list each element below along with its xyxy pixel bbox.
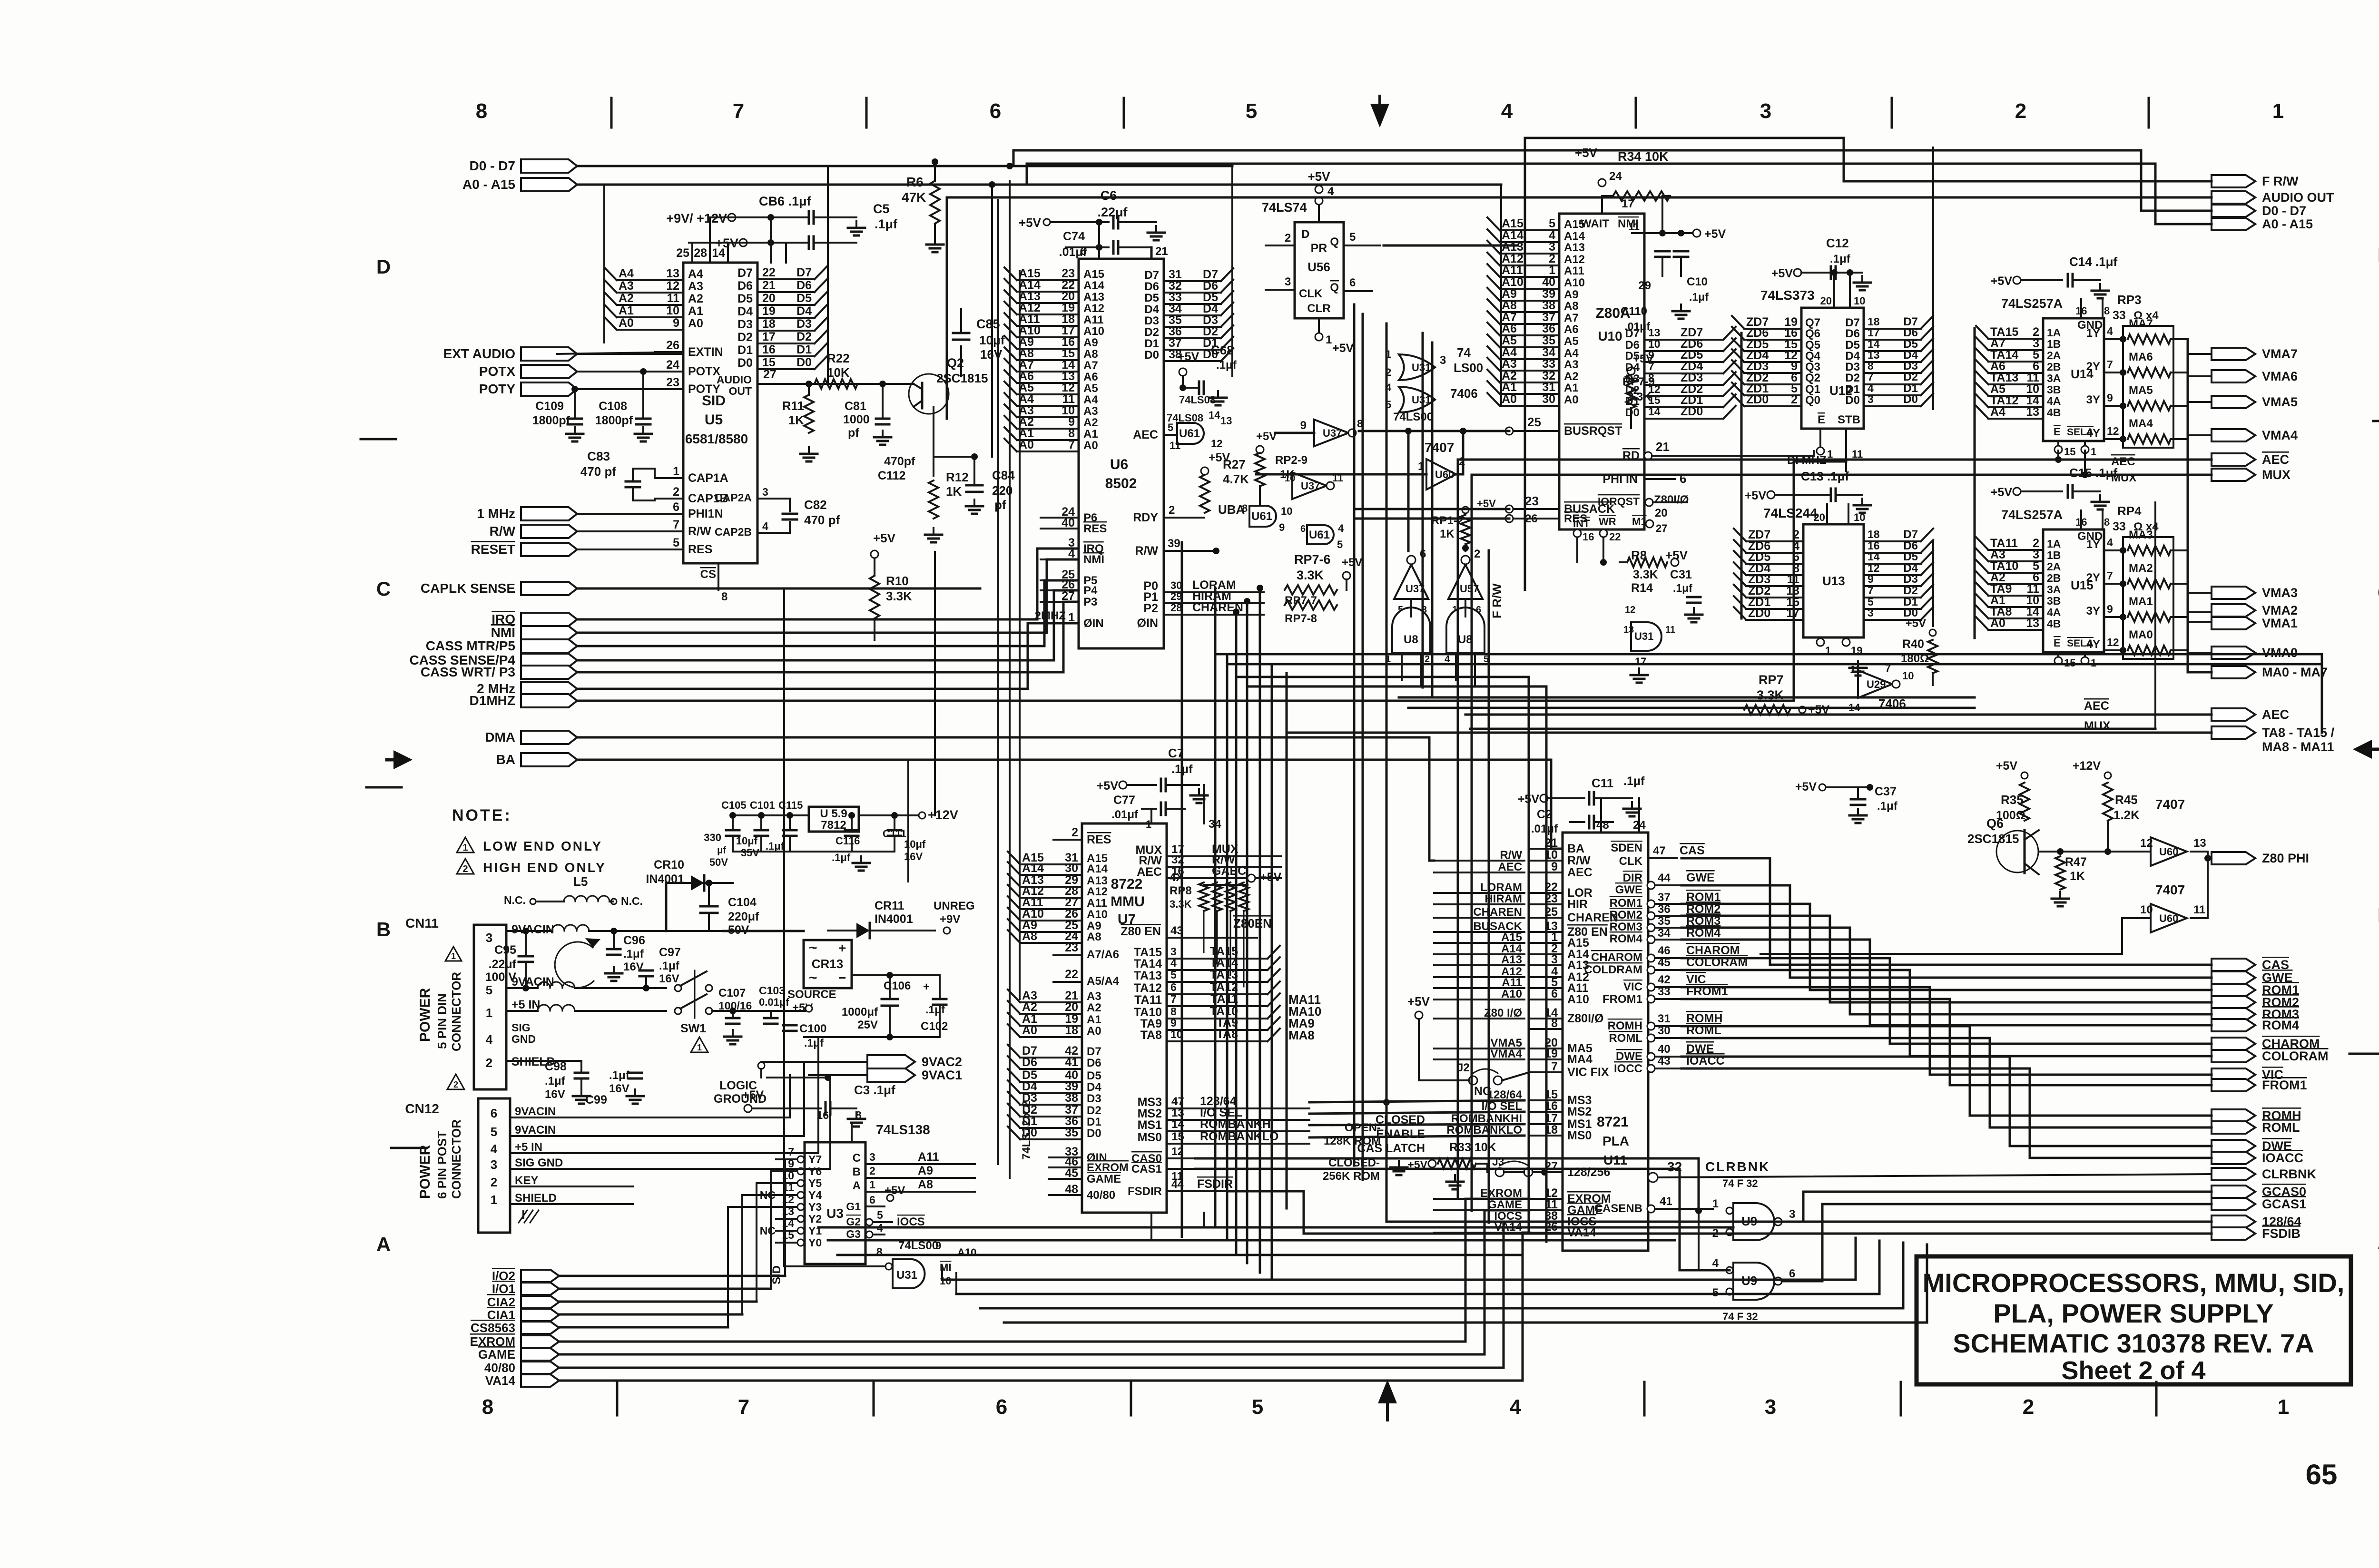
svg-text:FROM1: FROM1	[2262, 1078, 2307, 1092]
svg-text:GND: GND	[511, 1033, 536, 1045]
svg-text:+5V: +5V	[1996, 759, 2018, 773]
svg-text:A0 - A15: A0 - A15	[2262, 217, 2313, 231]
svg-text:D5: D5	[1625, 350, 1640, 363]
svg-text:C10: C10	[1687, 275, 1708, 288]
svg-text:U6: U6	[1110, 457, 1128, 472]
svg-text:10μf: 10μf	[904, 838, 926, 850]
svg-text:3: 3	[1868, 607, 1874, 619]
svg-text:CAP2A: CAP2A	[715, 491, 752, 504]
svg-text:2SC1815: 2SC1815	[936, 371, 988, 385]
svg-text:OUT: OUT	[728, 385, 752, 397]
svg-text:TA8: TA8	[1140, 1029, 1162, 1042]
svg-text:SIG GND: SIG GND	[515, 1156, 563, 1169]
svg-text:A12: A12	[1087, 885, 1108, 898]
svg-text:A4: A4	[688, 267, 703, 281]
svg-text:12: 12	[2140, 837, 2153, 850]
svg-text:C96: C96	[623, 934, 645, 947]
svg-text:POTY: POTY	[688, 382, 720, 396]
svg-text:R/W: R/W	[688, 525, 711, 538]
svg-text:3: 3	[869, 1151, 875, 1163]
svg-text:ROML: ROML	[1609, 1032, 1642, 1045]
svg-text:A5/A4: A5/A4	[1087, 975, 1120, 988]
svg-text:3: 3	[1285, 275, 1291, 288]
svg-text:7: 7	[673, 518, 679, 531]
svg-text:D3: D3	[1903, 573, 1918, 586]
svg-text:Q6: Q6	[1805, 327, 1820, 340]
svg-text:A14: A14	[1083, 279, 1105, 292]
svg-text:B: B	[376, 918, 391, 941]
svg-text:2: 2	[2015, 99, 2026, 123]
svg-text:A1: A1	[1083, 428, 1098, 441]
svg-text:4: 4	[1338, 522, 1344, 534]
svg-text:A6: A6	[1083, 371, 1098, 383]
svg-text:7: 7	[733, 99, 744, 123]
svg-text:Sheet 2 of 4: Sheet 2 of 4	[2061, 1356, 2205, 1385]
svg-text:.22μf: .22μf	[489, 958, 517, 971]
svg-text:U37: U37	[1323, 427, 1342, 439]
svg-text:1: 1	[491, 1193, 497, 1207]
svg-text:74LS74: 74LS74	[1262, 200, 1307, 215]
svg-text:A2: A2	[1564, 370, 1579, 383]
svg-text:A12: A12	[1083, 302, 1104, 315]
svg-text:6581/8580: 6581/8580	[685, 431, 748, 446]
svg-text:SDEN: SDEN	[1611, 842, 1642, 854]
svg-text:U31: U31	[1634, 630, 1653, 642]
svg-text:U56: U56	[1307, 260, 1330, 274]
svg-text:13: 13	[2026, 617, 2039, 630]
svg-text:38: 38	[1542, 299, 1555, 312]
svg-text:U31: U31	[1412, 394, 1431, 406]
svg-text:C110: C110	[1621, 305, 1647, 318]
svg-text:74LS244: 74LS244	[1763, 506, 1818, 520]
svg-text:10: 10	[666, 304, 679, 317]
svg-text:ROMBANKLO: ROMBANKLO	[1200, 1130, 1278, 1143]
svg-text:2: 2	[673, 485, 679, 499]
svg-text:+5 IN: +5 IN	[511, 998, 540, 1011]
svg-text:12: 12	[2107, 425, 2119, 437]
svg-text:8: 8	[1170, 1005, 1177, 1018]
svg-text:5: 5	[1252, 1395, 1263, 1419]
svg-text:CONNECTOR: CONNECTOR	[449, 1119, 463, 1199]
svg-text:74LS08: 74LS08	[1167, 412, 1203, 424]
svg-text:3: 3	[1868, 393, 1874, 405]
svg-text:3Y: 3Y	[2086, 393, 2100, 406]
svg-text:CIA1: CIA1	[487, 1308, 515, 1322]
svg-text:MS2: MS2	[1567, 1105, 1592, 1118]
svg-text:A8: A8	[1087, 931, 1101, 943]
svg-text:D4: D4	[1144, 303, 1159, 316]
svg-text:AEC: AEC	[1567, 866, 1593, 879]
svg-text:A2: A2	[1087, 1001, 1101, 1014]
svg-text:37: 37	[1658, 891, 1671, 904]
svg-text:.1μf: .1μf	[875, 217, 898, 231]
svg-text:R40: R40	[1902, 637, 1924, 651]
svg-text:D2: D2	[1903, 584, 1918, 597]
svg-text:A13: A13	[1502, 240, 1524, 254]
svg-text:35V: 35V	[741, 847, 759, 859]
svg-text:MA5: MA5	[2129, 384, 2153, 397]
svg-text:470pf: 470pf	[884, 455, 915, 468]
svg-text:POTY: POTY	[479, 382, 516, 396]
svg-text:C115: C115	[778, 799, 803, 811]
svg-text:U31: U31	[896, 1269, 917, 1282]
svg-text:+5V: +5V	[1178, 350, 1199, 363]
svg-text:VMA4: VMA4	[2262, 428, 2298, 442]
svg-text:MA6: MA6	[2129, 351, 2153, 363]
svg-text:8: 8	[721, 590, 727, 603]
svg-text:U57: U57	[1460, 583, 1479, 595]
svg-text:7: 7	[788, 1146, 794, 1158]
svg-text:ZD0: ZD0	[1748, 607, 1770, 620]
svg-text:Z80 EN: Z80 EN	[1121, 925, 1161, 938]
svg-text:3: 3	[1760, 99, 1771, 123]
svg-text:LOGIC: LOGIC	[719, 1079, 757, 1092]
svg-text:29: 29	[1170, 590, 1182, 602]
svg-text:D6: D6	[1845, 327, 1860, 340]
svg-text:7: 7	[1170, 993, 1177, 1005]
svg-text:9VACIN: 9VACIN	[515, 1124, 556, 1137]
svg-text:9VAC1: 9VAC1	[922, 1068, 962, 1082]
svg-text:256K ROM: 256K ROM	[1323, 1170, 1380, 1183]
svg-text:15: 15	[1648, 394, 1661, 406]
svg-text:45: 45	[1065, 1166, 1078, 1180]
svg-text:C74: C74	[1063, 230, 1085, 243]
svg-text:100Ω: 100Ω	[1996, 809, 2025, 822]
svg-text:CIA2: CIA2	[487, 1295, 515, 1309]
svg-text:A11: A11	[1502, 976, 1522, 989]
svg-text:36: 36	[1542, 322, 1555, 335]
svg-text:9VACIN: 9VACIN	[515, 1105, 556, 1118]
svg-text:A0: A0	[619, 316, 634, 330]
svg-text:CLRBNK: CLRBNK	[2262, 1167, 2316, 1181]
svg-text:46: 46	[1658, 944, 1671, 957]
svg-text:22: 22	[1609, 531, 1621, 543]
svg-text:TA12: TA12	[1134, 981, 1162, 995]
svg-text:7: 7	[1868, 371, 1874, 383]
svg-text:6: 6	[996, 1395, 1007, 1419]
svg-text:AEC: AEC	[2084, 699, 2109, 713]
svg-text:Y5: Y5	[808, 1177, 822, 1189]
svg-text:D3: D3	[1087, 1092, 1101, 1105]
svg-text:100 V: 100 V	[485, 970, 517, 984]
svg-text:A3: A3	[688, 280, 703, 293]
svg-text:A15: A15	[1083, 268, 1104, 281]
svg-text:74LS257A: 74LS257A	[2001, 508, 2063, 522]
svg-text:18: 18	[1065, 1024, 1078, 1037]
svg-text:2: 2	[486, 1056, 492, 1070]
svg-text:A0: A0	[688, 317, 703, 330]
svg-text:74LS32 x 2: 74LS32 x 2	[1020, 1101, 1033, 1160]
svg-text:C37: C37	[1875, 785, 1897, 798]
svg-text:10μf: 10μf	[736, 835, 758, 847]
svg-text:NC: NC	[760, 1225, 776, 1237]
svg-text:23: 23	[666, 376, 679, 389]
svg-text:U3: U3	[826, 1206, 844, 1221]
svg-text:7: 7	[1551, 1060, 1558, 1073]
svg-text:VMA2: VMA2	[2262, 603, 2298, 617]
svg-text:R12: R12	[946, 470, 969, 484]
svg-text:1K: 1K	[2070, 870, 2085, 883]
svg-text:33: 33	[1542, 357, 1555, 371]
svg-text:A2: A2	[1022, 1000, 1037, 1014]
svg-text:+5V: +5V	[1477, 498, 1496, 510]
svg-text:C102: C102	[921, 1020, 948, 1033]
svg-text:74LS257A: 74LS257A	[2001, 296, 2063, 311]
svg-text:D: D	[376, 255, 391, 278]
svg-text:14: 14	[1209, 409, 1220, 421]
svg-text:.1μf: .1μf	[545, 1075, 566, 1088]
svg-text:16: 16	[762, 343, 776, 356]
svg-text:GWE: GWE	[1686, 871, 1715, 884]
svg-text:21: 21	[762, 279, 776, 292]
svg-text:26: 26	[1525, 512, 1538, 525]
svg-text:A9: A9	[918, 1164, 933, 1177]
svg-text:D6: D6	[1144, 280, 1159, 293]
svg-text:ZD0: ZD0	[1746, 393, 1769, 406]
svg-text:A5: A5	[1564, 335, 1579, 348]
svg-text:34: 34	[1658, 927, 1671, 940]
svg-text:SCHEMATIC 310378 REV. 7A: SCHEMATIC 310378 REV. 7A	[1953, 1328, 2314, 1358]
svg-text:6: 6	[491, 1106, 497, 1120]
svg-text:AEC: AEC	[2111, 455, 2135, 468]
svg-text:40/80: 40/80	[1087, 1189, 1115, 1202]
svg-text:5: 5	[673, 536, 679, 549]
svg-text:A: A	[853, 1179, 861, 1192]
svg-text:3: 3	[1765, 1395, 1776, 1419]
svg-text:A3: A3	[1087, 990, 1101, 1003]
svg-text:Z80 PHI: Z80 PHI	[2262, 851, 2309, 865]
svg-text:NMI: NMI	[491, 625, 515, 640]
svg-text:IORQST: IORQST	[1598, 495, 1640, 508]
svg-text:pf: pf	[994, 498, 1006, 512]
svg-text:R/W: R/W	[490, 524, 516, 539]
svg-text:U61: U61	[1309, 529, 1330, 541]
svg-text:28: 28	[1170, 602, 1182, 614]
svg-text:C104: C104	[728, 896, 757, 909]
svg-text:CN12: CN12	[405, 1101, 439, 1116]
svg-text:FSDIR: FSDIR	[1128, 1185, 1162, 1198]
svg-text:Y4: Y4	[808, 1189, 822, 1201]
svg-text:35: 35	[1658, 915, 1671, 928]
svg-text:C101: C101	[750, 799, 775, 811]
svg-text:C15 .1μf: C15 .1μf	[2069, 466, 2118, 480]
svg-text:L5: L5	[573, 874, 588, 889]
svg-text:5: 5	[1337, 539, 1343, 550]
svg-text:IOACC: IOACC	[2262, 1151, 2303, 1165]
svg-text:A4: A4	[1083, 393, 1098, 406]
svg-text:4A: 4A	[2047, 606, 2061, 618]
svg-text:A14: A14	[1564, 230, 1585, 243]
svg-text:U5: U5	[705, 412, 723, 428]
svg-text:16: 16	[1583, 531, 1594, 543]
svg-text:BA: BA	[1567, 842, 1584, 855]
svg-text:+5V: +5V	[1308, 169, 1331, 184]
svg-text:MS0: MS0	[1138, 1131, 1162, 1144]
svg-text:40: 40	[1658, 1043, 1671, 1056]
svg-text:.1μf: .1μf	[1623, 774, 1645, 788]
svg-text:A4: A4	[619, 267, 634, 280]
svg-text:Q2: Q2	[1805, 372, 1820, 384]
svg-text:31: 31	[1658, 1012, 1671, 1025]
svg-text:35: 35	[1065, 1126, 1078, 1139]
svg-text:4: 4	[2107, 325, 2113, 337]
svg-text:A8: A8	[1502, 299, 1517, 312]
svg-text:PR: PR	[1311, 242, 1327, 255]
svg-text:C12: C12	[1826, 236, 1849, 250]
svg-text:HIR: HIR	[1567, 898, 1588, 911]
svg-text:A10: A10	[1564, 276, 1585, 289]
svg-text:A8: A8	[1083, 348, 1098, 361]
svg-text:3: 3	[1440, 354, 1446, 367]
svg-text:CN11: CN11	[405, 916, 439, 931]
svg-text:20: 20	[1820, 295, 1832, 307]
svg-text:A15: A15	[1564, 218, 1585, 231]
svg-text:D7: D7	[1144, 269, 1159, 282]
svg-text:.1μf: .1μf	[609, 1069, 630, 1082]
svg-text:SELA: SELA	[2067, 638, 2094, 649]
svg-text:D7: D7	[1087, 1045, 1101, 1058]
svg-text:C83: C83	[587, 449, 610, 463]
svg-text:D2: D2	[796, 330, 812, 343]
svg-text:C13 .1μf: C13 .1μf	[1801, 469, 1849, 483]
svg-text:R/W: R/W	[1567, 854, 1591, 867]
svg-text:COLORAM: COLORAM	[2262, 1049, 2328, 1063]
svg-text:COLDRAM: COLDRAM	[1584, 963, 1642, 976]
svg-text:CB6 .1μf: CB6 .1μf	[759, 194, 812, 208]
svg-text:33: 33	[1658, 985, 1671, 998]
svg-text:20: 20	[762, 292, 776, 305]
svg-text:ROM3: ROM3	[1610, 921, 1642, 933]
svg-text:9VACIN: 9VACIN	[511, 975, 554, 989]
svg-text:5: 5	[1349, 231, 1356, 244]
svg-text:R/W: R/W	[1500, 849, 1522, 862]
svg-text:2B: 2B	[2047, 361, 2061, 373]
svg-text:U 5.9: U 5.9	[820, 807, 847, 820]
svg-text:N.C.: N.C.	[504, 894, 526, 906]
svg-text:F R/W: F R/W	[1490, 583, 1504, 618]
svg-text:12: 12	[1211, 438, 1222, 450]
svg-text:74LS00: 74LS00	[1393, 411, 1433, 423]
svg-text:Y3: Y3	[808, 1201, 822, 1213]
svg-text:5: 5	[491, 1125, 497, 1139]
svg-text:POWER: POWER	[417, 988, 433, 1042]
svg-text:43: 43	[1658, 1055, 1671, 1068]
svg-text:LS00: LS00	[1454, 361, 1483, 375]
svg-text:1: 1	[2278, 1395, 2289, 1419]
svg-text:33: 33	[2113, 309, 2126, 322]
svg-text:9: 9	[1300, 419, 1307, 432]
svg-text:CLK: CLK	[1299, 287, 1323, 300]
svg-text:ØIN: ØIN	[1137, 617, 1158, 630]
svg-text:A6: A6	[1502, 322, 1517, 335]
svg-text:22: 22	[762, 266, 776, 279]
svg-text:30: 30	[1170, 579, 1182, 591]
svg-text:.1μf: .1μf	[1689, 291, 1709, 303]
svg-text:1.2K: 1.2K	[2114, 808, 2140, 822]
svg-text:WR: WR	[1599, 516, 1616, 528]
svg-text:U60: U60	[2159, 846, 2178, 858]
svg-text:GAEC: GAEC	[1212, 864, 1246, 878]
svg-text:R14: R14	[1631, 581, 1653, 595]
svg-text:9: 9	[1279, 521, 1285, 533]
svg-text:ROM4: ROM4	[1610, 932, 1643, 945]
svg-text:10: 10	[2140, 903, 2153, 916]
svg-text:4A: 4A	[2047, 395, 2061, 407]
svg-text:1: 1	[486, 1006, 492, 1020]
svg-text:1000μf: 1000μf	[842, 1006, 878, 1019]
svg-text:3: 3	[1789, 1208, 1795, 1221]
svg-text:D1: D1	[1625, 395, 1640, 408]
svg-text:D6: D6	[737, 279, 753, 293]
svg-text:D7: D7	[796, 266, 812, 279]
svg-text:U8: U8	[1404, 633, 1418, 646]
svg-text:BUSRQST: BUSRQST	[1564, 424, 1622, 438]
svg-text:AUDIO: AUDIO	[717, 373, 752, 386]
svg-text:C3 .1μf: C3 .1μf	[854, 1083, 895, 1097]
svg-text:+5V: +5V	[1991, 486, 2013, 499]
svg-text:GROUND: GROUND	[714, 1092, 767, 1106]
svg-text:11: 11	[1852, 448, 1863, 460]
svg-text:D6: D6	[796, 279, 812, 292]
svg-text:3.3K: 3.3K	[1170, 898, 1192, 910]
svg-text:11: 11	[667, 292, 680, 305]
svg-text:39: 39	[1168, 537, 1180, 550]
svg-text:27: 27	[763, 368, 777, 381]
svg-text:6: 6	[869, 1194, 875, 1206]
svg-text:RP4: RP4	[2117, 504, 2142, 518]
svg-text:9: 9	[1868, 573, 1874, 585]
svg-text:EXROM: EXROM	[470, 1334, 515, 1349]
svg-text:23: 23	[1525, 494, 1539, 508]
svg-text:5 PIN DIN: 5 PIN DIN	[435, 993, 449, 1049]
svg-text:+5V: +5V	[1342, 556, 1362, 569]
svg-text:STB: STB	[1838, 413, 1860, 426]
svg-text:U31: U31	[1412, 362, 1431, 373]
svg-text:RP7-6: RP7-6	[1294, 552, 1331, 567]
svg-text:TA8 - TA15 /: TA8 - TA15 /	[2262, 725, 2335, 740]
svg-text:PLA, POWER SUPPLY: PLA, POWER SUPPLY	[1993, 1298, 2273, 1328]
svg-text:A8: A8	[1564, 300, 1579, 313]
svg-text:D2: D2	[1144, 326, 1159, 339]
svg-text:A15: A15	[1502, 217, 1524, 230]
svg-text:AEC: AEC	[1133, 428, 1158, 441]
svg-text:27: 27	[1656, 522, 1667, 534]
svg-text:VA14: VA14	[485, 1373, 516, 1388]
svg-text:SW1: SW1	[680, 1022, 706, 1035]
svg-text:A11: A11	[918, 1150, 939, 1164]
svg-text:CLK: CLK	[1619, 855, 1643, 868]
svg-text:1A: 1A	[2047, 326, 2061, 339]
svg-text:7406: 7406	[1450, 386, 1478, 401]
svg-text:D2: D2	[1087, 1104, 1101, 1117]
svg-text:16V: 16V	[609, 1082, 629, 1095]
svg-text:8: 8	[1551, 1017, 1558, 1030]
svg-text:POWER: POWER	[417, 1145, 433, 1199]
svg-text:.1μf: .1μf	[1216, 359, 1237, 372]
svg-text:18: 18	[1868, 528, 1880, 540]
svg-text:FSDIB: FSDIB	[2262, 1226, 2300, 1241]
svg-text:MMU: MMU	[1111, 894, 1145, 910]
svg-text:PLA: PLA	[1602, 1134, 1629, 1148]
svg-text:KEY: KEY	[515, 1174, 538, 1187]
svg-text:ZD0: ZD0	[1681, 405, 1703, 418]
svg-text:9: 9	[935, 1240, 941, 1252]
svg-text:C81: C81	[845, 400, 866, 413]
svg-text:VIC FIX: VIC FIX	[1567, 1066, 1609, 1079]
svg-text:6 PIN POST: 6 PIN POST	[435, 1131, 449, 1199]
svg-text:D0: D0	[737, 356, 753, 370]
svg-text:45: 45	[1658, 956, 1671, 969]
